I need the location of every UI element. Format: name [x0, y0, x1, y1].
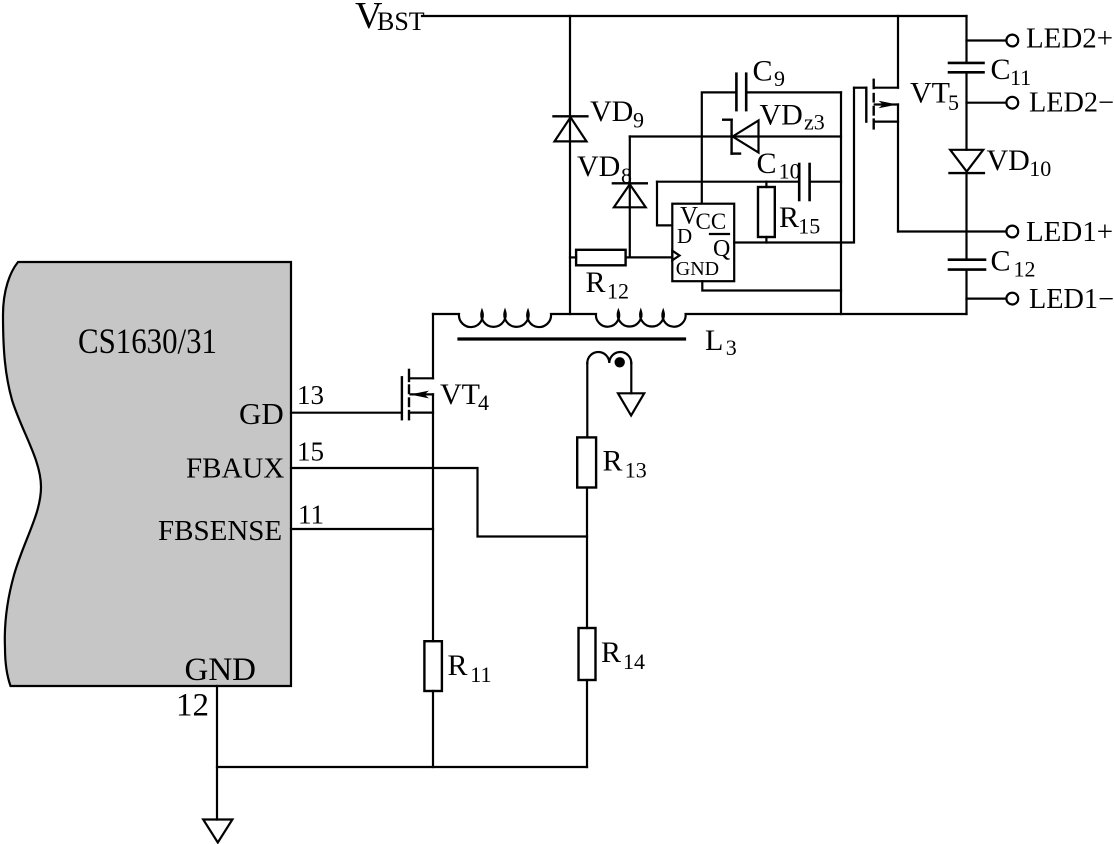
- IC U-main CS1630/31 block: [3, 262, 291, 686]
- svg-text:VD: VD: [987, 144, 1030, 177]
- ground secondary: [618, 393, 644, 415]
- wire R14 bottom lead: [586, 680, 588, 767]
- svg-text:10: 10: [779, 159, 801, 184]
- svg-text:FBSENSE: FBSENSE: [158, 515, 282, 547]
- svg-text:12: 12: [176, 687, 209, 723]
- svg-text:9: 9: [633, 108, 644, 133]
- svg-text:15: 15: [798, 214, 820, 239]
- label CS1630/31: [78, 321, 217, 361]
- label VD10: [987, 144, 1052, 181]
- label R13: [603, 444, 647, 482]
- svg-text:C: C: [991, 53, 1011, 86]
- pin label VCC: [680, 203, 726, 234]
- svg-text:VD: VD: [577, 150, 620, 183]
- label L3: [705, 324, 737, 360]
- pin label GND (main IC): [185, 652, 257, 688]
- wire R11 bottom lead: [432, 691, 434, 767]
- svg-text:LED1−: LED1−: [1029, 284, 1114, 315]
- core bar L3: [459, 337, 685, 340]
- resistor R14: [579, 628, 596, 680]
- svg-text:LED1+: LED1+: [1026, 217, 1113, 248]
- svg-text:R: R: [601, 636, 621, 669]
- clock pin triangle: [672, 251, 679, 261]
- diode VD8: [613, 183, 647, 207]
- svg-text:5: 5: [948, 90, 959, 115]
- diode VD9: [554, 116, 588, 141]
- svg-text:8: 8: [621, 163, 632, 188]
- svg-text:9: 9: [774, 66, 785, 91]
- wire GND pin 12 down: [216, 686, 218, 820]
- wire Qbar output: [734, 88, 854, 243]
- resistor R15: [758, 182, 775, 243]
- terminal LED2+: [967, 35, 1019, 47]
- svg-text:CC: CC: [696, 209, 727, 234]
- label VT4: [440, 378, 489, 415]
- wire right column segments: [965, 72, 967, 150]
- svg-text:12: 12: [607, 279, 629, 304]
- wire switch-node vertical x841: [840, 92, 842, 314]
- terminal LED1-: [967, 293, 1019, 305]
- svg-text:GND: GND: [185, 652, 257, 688]
- svg-text:15: 15: [297, 437, 324, 467]
- wire bottom return: [217, 766, 587, 768]
- resistor R13: [577, 437, 596, 487]
- wire FBAUX pin 15: [291, 468, 587, 537]
- svg-text:L: L: [705, 324, 723, 357]
- transistor VT4: [291, 314, 433, 641]
- capacitor C10: [657, 164, 841, 225]
- pin number 13: [297, 380, 324, 410]
- wire right column top: [965, 16, 967, 62]
- label C9: [753, 55, 786, 92]
- wire U2 GND return: [702, 281, 841, 290]
- wire VD9 column: [569, 16, 571, 314]
- svg-text:12: 12: [1014, 257, 1036, 282]
- IC U2 driver box: [672, 204, 734, 282]
- pin label FBSENSE: [158, 515, 282, 547]
- label VT5: [910, 77, 959, 116]
- polarity dot: [615, 357, 625, 367]
- label LED2+: [1026, 24, 1113, 55]
- svg-text:C: C: [991, 245, 1011, 278]
- svg-text:CS1630/31: CS1630/31: [78, 321, 217, 361]
- svg-text:GD: GD: [239, 396, 284, 431]
- label R14: [601, 636, 645, 674]
- transistor VT5: [854, 16, 898, 232]
- pin label D: [677, 224, 692, 248]
- svg-text:C: C: [757, 147, 777, 180]
- label R11: [448, 649, 492, 687]
- label VDz3: [760, 99, 825, 135]
- label C12: [991, 245, 1036, 282]
- label C10: [757, 147, 801, 184]
- wire VDz3 horizontal net: [630, 135, 841, 137]
- inductor L3 secondary winding: [587, 352, 631, 363]
- wire VBST top rail: [422, 15, 967, 17]
- svg-text:R: R: [586, 266, 606, 299]
- svg-text:11: 11: [298, 500, 324, 530]
- wire secondary right leg: [630, 363, 632, 393]
- svg-text:C: C: [753, 55, 773, 88]
- label C11: [991, 53, 1032, 90]
- svg-text:11: 11: [1010, 65, 1031, 90]
- svg-text:z3: z3: [804, 110, 825, 135]
- svg-text:3: 3: [726, 335, 737, 360]
- svg-text:GND: GND: [676, 258, 719, 280]
- svg-text:VD: VD: [760, 99, 803, 132]
- terminal LED1+: [1006, 226, 1018, 238]
- resistor R12: [570, 250, 672, 265]
- pin label GND (U2): [676, 258, 719, 280]
- svg-text:11: 11: [470, 662, 491, 687]
- label LED2-: [1029, 88, 1114, 119]
- svg-text:13: 13: [625, 458, 647, 483]
- svg-text:VT: VT: [440, 378, 480, 411]
- svg-text:R: R: [603, 444, 623, 477]
- wire R13 bottom lead: [586, 488, 588, 629]
- pin number 12: [176, 687, 209, 723]
- svg-text:4: 4: [478, 390, 489, 415]
- label R15: [779, 201, 820, 239]
- wire LED1+ line from VT5 source: [898, 230, 1006, 232]
- pin number 11: [298, 500, 324, 530]
- svg-text:LED2+: LED2+: [1026, 24, 1113, 55]
- inductor L3 primary winding: [433, 311, 967, 327]
- svg-text:LED2−: LED2−: [1029, 88, 1114, 119]
- capacitor C12: [949, 260, 985, 270]
- svg-text:FBAUX: FBAUX: [186, 452, 284, 484]
- label LED1+: [1026, 217, 1113, 248]
- wire VD8 branch vertical: [629, 137, 631, 258]
- svg-text:D: D: [677, 224, 692, 248]
- label R12: [586, 266, 630, 304]
- svg-text:BST: BST: [377, 7, 425, 36]
- resistor R11: [424, 641, 442, 691]
- wire secondary left leg: [586, 363, 588, 437]
- pin label Qbar: [710, 234, 730, 262]
- pin label FBAUX: [186, 452, 284, 484]
- node VBST label: [355, 0, 425, 37]
- label VD9: [590, 95, 644, 133]
- pin number 15: [297, 437, 324, 467]
- svg-text:R: R: [448, 649, 468, 682]
- diode VD10: [950, 150, 984, 173]
- svg-text:VT: VT: [910, 77, 950, 110]
- pin label GD: [239, 396, 284, 431]
- zener diode VDz3: [723, 120, 758, 154]
- svg-text:14: 14: [623, 649, 645, 674]
- ground main: [203, 820, 232, 843]
- capacitor C11: [949, 63, 984, 72]
- wire FBSENSE pin 11: [291, 528, 433, 530]
- svg-text:10: 10: [1029, 156, 1051, 181]
- capacitor C9: [702, 74, 841, 204]
- label LED1-: [1029, 284, 1114, 315]
- label VD8: [577, 150, 632, 188]
- svg-text:13: 13: [297, 380, 324, 410]
- svg-text:R: R: [779, 201, 799, 234]
- terminal LED2-: [967, 97, 1019, 109]
- svg-text:VD: VD: [590, 95, 633, 128]
